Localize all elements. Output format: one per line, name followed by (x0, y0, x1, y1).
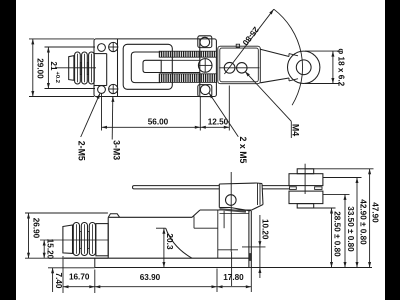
svg-text:M4: M4 (290, 124, 300, 136)
svg-text:56.00: 56.00 (148, 117, 169, 126)
svg-text:2 x M5: 2 x M5 (238, 137, 248, 164)
svg-text:42.90 ± 0.80: 42.90 ± 0.80 (358, 199, 367, 245)
svg-text:17.80: 17.80 (223, 273, 244, 282)
svg-text:26.90: 26.90 (31, 218, 40, 239)
svg-text:+0.2: +0.2 (54, 72, 60, 83)
svg-text:3-M3: 3-M3 (112, 140, 122, 160)
svg-text:15.20: 15.20 (46, 239, 55, 260)
svg-text:2-M5: 2-M5 (77, 141, 87, 161)
svg-text:28.50 ± 0.80: 28.50 ± 0.80 (333, 211, 342, 257)
svg-text:7.40: 7.40 (54, 273, 63, 289)
svg-text:21: 21 (49, 62, 58, 71)
svg-text:63.90: 63.90 (140, 273, 161, 282)
svg-text:29.00: 29.00 (36, 58, 45, 79)
svg-text:φ 18 x 6.2: φ 18 x 6.2 (336, 48, 345, 86)
svg-text:20.3: 20.3 (165, 233, 175, 250)
svg-text:16.70: 16.70 (69, 273, 90, 282)
svg-text:33.50 ± 0.80: 33.50 ± 0.80 (346, 206, 355, 252)
svg-text:10.20: 10.20 (261, 219, 270, 240)
svg-text:12.50: 12.50 (208, 117, 229, 126)
svg-text:47.90: 47.90 (370, 202, 379, 223)
